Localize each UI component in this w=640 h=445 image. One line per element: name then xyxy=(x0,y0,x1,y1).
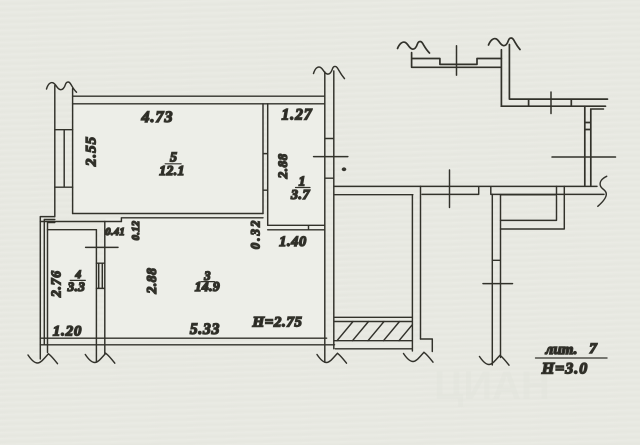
svg-text:4.73: 4.73 xyxy=(141,109,174,126)
closet / shaft box xyxy=(501,186,565,229)
svg-text:1.20: 1.20 xyxy=(53,324,82,340)
tick crossing door room1 east xyxy=(314,156,348,158)
svg-text:14.9: 14.9 xyxy=(195,279,220,294)
wall left exterior of room 5 xyxy=(55,86,73,217)
svg-text:0.32: 0.32 xyxy=(249,218,263,249)
svg-text:3.3: 3.3 xyxy=(67,279,86,294)
svg-text:лит.: лит. xyxy=(545,342,578,358)
tick crossing wall pair xyxy=(552,156,616,158)
wall divider room 5 | room 1 xyxy=(263,104,268,226)
svg-text:5.33: 5.33 xyxy=(190,321,220,338)
balcony top wall (double) xyxy=(334,185,421,187)
svg-text:0.41: 0.41 xyxy=(105,227,125,238)
wall room 4 top xyxy=(40,222,121,230)
svg-text:2.76: 2.76 xyxy=(49,270,64,298)
room 5 floor fill xyxy=(74,105,262,214)
main corridor wall band (double) xyxy=(421,186,605,194)
top-right stair wall upper band xyxy=(412,53,502,68)
note lit. 7 xyxy=(536,341,608,378)
wall verticals from S4 down xyxy=(501,45,509,107)
balcony hatched slab xyxy=(334,317,412,340)
tick crossing shaft wall xyxy=(483,283,513,285)
wall room 4 | room 3 xyxy=(96,222,104,363)
wall top (room 5 / room 1 exterior, double line) xyxy=(73,96,325,104)
door D1 room4 wall xyxy=(96,263,104,288)
svg-text:2.55: 2.55 xyxy=(83,136,99,167)
break symbol below balcony right wall xyxy=(404,352,434,362)
svg-text:1.40: 1.40 xyxy=(279,234,307,250)
room label 4 / 3.3 xyxy=(67,269,86,294)
tick crossing door on corridor wall xyxy=(449,170,451,208)
tick crossing upper band xyxy=(456,46,458,75)
svg-text:7: 7 xyxy=(589,341,597,357)
wall room 3 ceiling line xyxy=(121,218,263,222)
window W1 in left wall xyxy=(55,130,73,188)
svg-text:1: 1 xyxy=(299,173,306,188)
room 1 floor fill xyxy=(269,105,325,225)
step at bottom right of balcony wall xyxy=(421,339,433,352)
svg-text:H=2.75: H=2.75 xyxy=(251,315,302,331)
break symbol S4 xyxy=(489,38,521,49)
small step right end band 2 xyxy=(592,108,604,110)
tick on room4 wall xyxy=(86,246,118,248)
room 4 floor fill xyxy=(48,231,95,338)
break symbol below shaft wall xyxy=(480,355,510,365)
room 3 floor fill xyxy=(106,219,325,338)
tick crossing band 2 xyxy=(550,92,552,114)
break symbol bottom below left wall xyxy=(28,354,58,364)
ink dot xyxy=(342,167,347,171)
svg-text:2.88: 2.88 xyxy=(275,153,290,179)
break symbol above wall x325 xyxy=(314,66,345,78)
curl break at corridor wall right end xyxy=(598,176,607,206)
balcony inner top line xyxy=(335,194,413,196)
wall shaft vertical pair xyxy=(492,194,500,365)
corner step left (room5 to room4 wall offset) xyxy=(40,217,55,359)
wall right of balcony xyxy=(335,186,420,351)
wall room 1 floor band xyxy=(268,225,325,230)
break symbol S3 xyxy=(398,42,430,53)
wall bottom exterior band xyxy=(40,338,334,345)
room label 5 / 12.1 xyxy=(159,151,185,178)
svg-text:1.27: 1.27 xyxy=(281,107,312,124)
wall pair descending to corridor wall xyxy=(585,106,591,185)
svg-text:0.12: 0.12 xyxy=(131,221,142,241)
svg-text:3.7: 3.7 xyxy=(290,188,311,203)
svg-text:H=3.0: H=3.0 xyxy=(541,361,589,378)
wall right of room1 / left of balcony xyxy=(325,71,334,362)
svg-text:ЦИАН: ЦИАН xyxy=(434,364,550,408)
svg-text:2.88: 2.88 xyxy=(144,267,159,294)
break symbol bottom below wall room4|3 xyxy=(85,353,115,363)
break symbol top-left xyxy=(47,82,77,92)
room label 3 / 14.9 xyxy=(195,269,220,294)
room label 1 / 3.7 xyxy=(290,173,311,203)
right stair wall band 2 xyxy=(501,99,607,106)
wall room 5 floor line xyxy=(73,213,263,215)
break symbol below balcony left wall xyxy=(317,353,347,363)
svg-text:12.1: 12.1 xyxy=(159,163,185,178)
